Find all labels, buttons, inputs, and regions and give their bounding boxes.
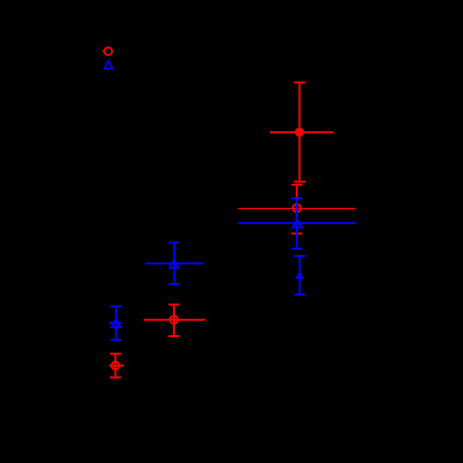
errorbar point C: blue open triangle (115.9,323.2) [109, 306, 122, 339]
errorbar point E: red filled circle (299.5,132.2) [270, 83, 334, 182]
legend marker blue open triangle [104, 61, 112, 69]
errorbar point F: red open circle (296.8,208.1) [238, 185, 355, 234]
errorbar point H: blue filled triangle (299.6,275.6) [294, 256, 305, 295]
legend marker red open circle [103, 47, 113, 55]
errorbar point B: red open circle (173.9,319.8) [144, 305, 206, 337]
errorbar point G: blue open triangle (296.9,223.3) [238, 198, 357, 249]
errorbar point D: red open circle (115.4,365.6) [109, 354, 124, 378]
errorbar point A: blue open triangle (174.2,263.5) [145, 243, 204, 285]
